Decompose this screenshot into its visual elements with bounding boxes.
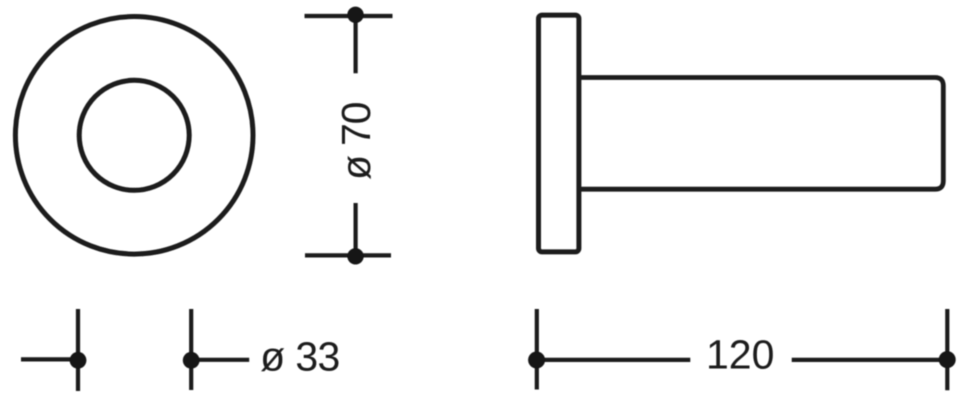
120 right witness line	[945, 309, 949, 390]
ø70 dimension line upper segment	[354, 15, 358, 74]
120 left witness line	[535, 309, 539, 390]
120 right dimension dot	[939, 351, 956, 368]
ø70 dimension line lower segment	[354, 203, 358, 256]
ø33 right witness line	[189, 309, 193, 390]
svg-text:ø 70: ø 70	[333, 102, 379, 180]
ø33 left extension line	[21, 357, 78, 361]
120 dimension line left segment	[537, 358, 691, 362]
120 left dimension dot	[528, 352, 545, 369]
ø33 right dimension dot	[183, 352, 200, 369]
svg-text:120: 120	[706, 332, 774, 378]
side view flange plate	[539, 15, 579, 252]
front view inner circle (ø 33)	[79, 80, 189, 190]
ø33 left witness line	[76, 309, 80, 391]
front view outer circle (flange, ø 70)	[15, 17, 253, 255]
svg-text:ø 33: ø 33	[260, 333, 340, 379]
ø33 left dimension dot	[70, 352, 87, 369]
120 dimension line right segment	[792, 358, 947, 362]
ø70 bottom extension line	[305, 253, 391, 257]
ø33 right extension line	[191, 358, 249, 362]
ø70 top extension line	[305, 14, 393, 18]
ø70 top dimension dot	[347, 7, 363, 23]
side view cylinder body	[579, 78, 943, 190]
ø70 bottom dimension dot	[347, 248, 363, 264]
